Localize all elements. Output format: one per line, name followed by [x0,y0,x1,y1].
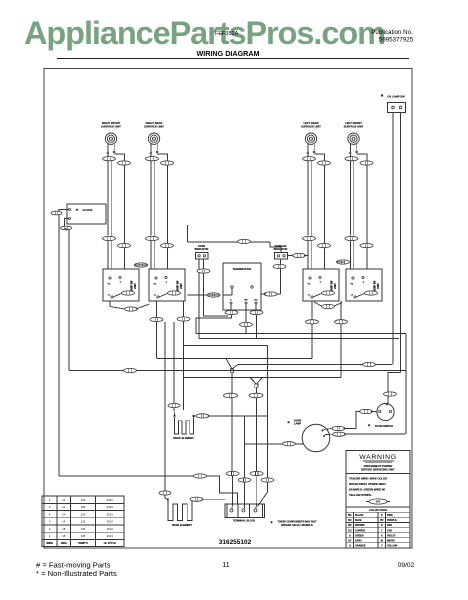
svg-text:R: R [381,524,383,527]
svg-text:3324: 3324 [107,505,113,509]
svg-text:GRAY: GRAY [355,540,362,543]
svg-text:WARNING: WARNING [359,454,397,461]
svg-text:150: 150 [81,498,86,502]
svg-text:2613: 2613 [107,520,113,524]
svg-text:PINK: PINK [387,514,393,517]
svg-text:TERMINAL BLOCK: TERMINAL BLOCK [233,520,256,523]
svg-text:INDICATOR: INDICATOR [274,248,288,251]
svg-text:DOOR SWITCH: DOOR SWITCH [375,425,393,428]
svg-text:14: 14 [62,512,65,516]
svg-text:COPPER: COPPER [355,529,365,532]
svg-text:240V: 240V [180,283,183,289]
svg-text:SURFACE UNIT: SURFACE UNIT [301,125,321,129]
svg-text:GREEN: GREEN [355,534,364,537]
svg-text:SURF SW: SURF SW [178,280,180,291]
svg-text:SURF SW: SURF SW [132,280,134,291]
svg-text:TEMP°C: TEMP°C [78,542,88,545]
svg-text:AppliancePartsPros.com: AppliancePartsPros.com [24,15,386,51]
svg-text:COLOR CODE: COLOR CODE [369,508,387,512]
svg-text:EXAMPLE: GREEN WIRE W/: EXAMPLE: GREEN WIRE W/ [349,488,385,492]
svg-text:TAN: TAN [387,529,392,532]
svg-text:VIOLET: VIOLET [387,534,396,537]
svg-text:11: 11 [222,562,229,569]
svg-text:RED: RED [387,524,392,527]
svg-text:3321: 3321 [107,498,113,502]
svg-text:PURPLE: PURPLE [387,519,397,522]
svg-text:125: 125 [81,512,86,516]
svg-text:RIGHT REAR: RIGHT REAR [146,121,163,125]
svg-text:14: 14 [62,498,65,502]
svg-text:LEFT FRONT: LEFT FRONT [345,121,362,125]
svg-text:Publication No.: Publication No. [371,29,413,36]
svg-text:LAMP: LAMP [294,423,301,426]
svg-text:DISCONNECT POWER: DISCONNECT POWER [364,464,393,468]
svg-text:PU: PU [380,519,384,522]
svg-text:150: 150 [81,505,86,509]
svg-text:RIGHT FRONT: RIGHT FRONT [102,121,121,125]
svg-text:AWG: AWG [61,542,67,545]
svg-text:BAKE ELEMENT: BAKE ELEMENT [172,524,192,527]
svg-text:125: 125 [81,534,86,538]
svg-text:FEF352A: FEF352A [215,31,239,37]
svg-text:BR: BR [348,524,352,527]
svg-text:BK: BK [348,514,352,517]
svg-text:NOTED FIRST, STRIPE NEXT.: NOTED FIRST, STRIPE NEXT. [349,482,386,486]
svg-text:240V: 240V [334,283,337,289]
svg-text:O: O [349,545,351,548]
svg-text:BA: BA [254,299,258,302]
svg-text:BEFORE SERVICING UNIT.: BEFORE SERVICING UNIT. [361,468,395,472]
svg-text:14: 14 [62,520,65,524]
svg-text:125: 125 [81,520,86,524]
svg-text:CLOCK: CLOCK [83,208,93,212]
svg-text:125: 125 [81,527,86,531]
svg-text:2613: 2613 [107,527,113,531]
svg-text:316255102: 316255102 [219,539,252,546]
svg-text:G/Y: G/Y [376,500,381,504]
svg-text:*: * [381,94,384,101]
svg-text:TRACER WIRE: WIRE COLOR: TRACER WIRE: WIRE COLOR [349,477,387,481]
svg-text:SURFACE UNIT: SURFACE UNIT [344,125,364,129]
svg-text:5995377925: 5995377925 [379,37,414,44]
svg-text:* = Non-Illustrated Parts: * = Non-Illustrated Parts [36,569,117,578]
svg-text:LEFT REAR: LEFT REAR [303,121,318,125]
svg-text:SURFACE UNIT: SURFACE UNIT [144,125,164,129]
svg-text:BR: BR [244,300,248,302]
svg-text:240V: 240V [377,283,380,289]
svg-text:BROWN: BROWN [355,524,365,527]
svg-text:THERMOSTAT: THERMOSTAT [232,267,251,271]
svg-text:18: 18 [62,527,65,531]
svg-text:2613: 2613 [107,512,113,516]
svg-text:OV LAMP SW: OV LAMP SW [387,95,405,99]
svg-text:WIRING DIAGRAM: WIRING DIAGRAM [196,49,259,58]
svg-text:BLUE: BLUE [355,519,362,522]
svg-text:INDICATOR: INDICATOR [195,248,209,251]
svg-text:GY: GY [348,540,352,543]
svg-text:240V: 240V [134,283,137,289]
svg-text:09/02: 09/02 [398,562,415,569]
svg-text:G: G [349,534,351,537]
svg-text:YELLOW: YELLOW [387,545,398,548]
svg-text:18: 18 [62,534,65,538]
svg-text:SURF SW: SURF SW [332,280,334,291]
svg-text:2613: 2613 [107,534,113,538]
svg-text:WHITE: WHITE [387,540,395,543]
svg-text:14: 14 [62,505,65,509]
svg-text:BU: BU [348,519,352,522]
svg-text:YELLOW STRIPE.: YELLOW STRIPE. [349,493,372,497]
svg-text:WIRE: WIRE [46,542,53,545]
svg-text:ORANGE: ORANGE [355,545,366,548]
svg-text:BLACK: BLACK [355,514,364,517]
svg-text:SURF SW: SURF SW [375,280,377,291]
svg-text:UL STYLE: UL STYLE [104,542,116,545]
svg-text:SURFACE UNIT: SURFACE UNIT [101,125,121,129]
svg-text:BROIL ELEMENT: BROIL ELEMENT [173,437,194,440]
svg-text:APPEAR ON ALL MODELS.: APPEAR ON ALL MODELS. [281,524,314,527]
svg-text:CU: CU [348,529,352,532]
